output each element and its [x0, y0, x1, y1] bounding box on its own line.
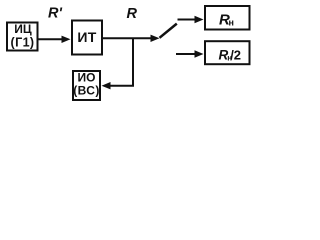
block Rн — [205, 6, 250, 30]
block Rн/2 — [205, 41, 250, 64]
svg-text:ИО: ИО — [78, 71, 96, 85]
svg-text:/2: /2 — [230, 48, 241, 63]
wire arrow into Rн/2 — [176, 50, 204, 57]
svg-text:(ВС): (ВС) — [73, 84, 99, 98]
switch blade — [160, 24, 177, 38]
wire arrow into Rн — [178, 16, 204, 23]
block ИО (ВС) — [73, 71, 100, 100]
svg-text:(Г1): (Г1) — [11, 36, 35, 50]
block ИЦ (Г1) — [7, 22, 38, 51]
wire branch down from node — [132, 38, 134, 86]
svg-text:ИТ: ИТ — [77, 29, 96, 45]
wire R with arrow (switch contact) — [103, 35, 160, 42]
svg-text:н: н — [229, 17, 234, 27]
wire arrow into ИО — [102, 82, 135, 89]
block ИТ — [72, 21, 102, 55]
svg-text:ИЦ: ИЦ — [14, 22, 32, 36]
wire R' with arrow into ИТ — [38, 36, 71, 43]
svg-text:R: R — [127, 6, 138, 22]
svg-text:R': R' — [48, 6, 62, 22]
